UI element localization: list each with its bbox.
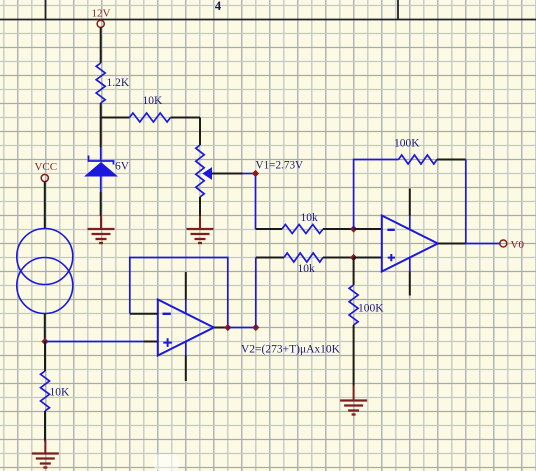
wire U2 feedback left vertical [354,160,399,230]
svg-text:VCC: VCC [34,161,57,173]
svg-text:100K: 100K [358,303,384,315]
resistor R6 100K feedback [394,138,437,165]
resistor R5 10k (to U2 + input) [256,253,354,275]
current source B1 (two circles) [17,229,73,314]
resistor R7 100K to ground [349,258,384,326]
resistor R2 10K horizontal [101,95,200,122]
wire 12V terminal to resistor R1 [100,28,102,64]
node R5 / U2 + input / R7 [350,254,357,261]
wire node V1 down to R4 row [255,177,257,230]
wire U1 feedback loop [130,258,228,328]
svg-text:100K: 100K [394,138,420,150]
wire node to op-amp U1 + input [45,341,144,343]
op-amp U2 [382,216,438,272]
svg-text:12V: 12V [92,8,111,20]
wire U1 output to node V2 [228,327,256,329]
svg-text:10K: 10K [143,95,164,107]
wire R5 node to U2 + input [354,257,382,259]
U1 power pin bottom [185,342,187,356]
ground (potentiometer) [199,216,201,229]
ground (R3) [44,440,46,454]
wire R4 node to U2 - input [354,228,382,230]
svg-text:10k: 10k [301,212,319,224]
power terminal V0 [500,239,525,251]
wire U2 output pin [438,243,466,245]
node R4 / U2 - input / feedback [350,225,357,232]
ground (R7) [353,386,355,401]
svg-text:V2=(273+T)μAx10K: V2=(273+T)μAx10K [241,344,341,356]
U2 power pin bottom [409,258,411,272]
power terminal VCC [34,161,57,182]
wire potentiometer bottom to ground [199,197,201,216]
wire feedback to right vertical [437,159,466,161]
svg-text:10K: 10K [50,387,71,399]
wire U1 output pin [214,327,228,329]
wire R7 to ground [353,325,355,386]
wire U2 output to V0 terminal [466,243,500,245]
wire node V2 up to R5 row [255,258,257,328]
node current source / R3 / U1 input [41,338,48,345]
wire feedback right vertical to output [465,160,467,244]
svg-text:V1=2.73V: V1=2.73V [256,160,304,172]
resistor R3 10K vertical [41,342,71,412]
wire current source to summing node [44,314,46,342]
svg-text:4: 4 [215,0,222,13]
op-amp U1 [158,300,214,356]
wire R3 to ground [44,411,46,442]
node V2 [252,324,259,331]
zener diode D1 6V [84,147,130,192]
node V1 junction [252,170,259,177]
wire blue segment into node V1 [243,173,256,175]
svg-text:10k: 10k [298,263,316,275]
wire zener anode to ground [100,192,102,216]
wire wiper to node V1 [212,173,243,175]
wire R1 to zener cathode node [100,103,102,147]
svg-text:6V: 6V [115,161,130,173]
ground (zener) [100,216,102,229]
wire U1 - input pin [130,313,158,315]
resistor R1 1.2K [96,63,130,103]
watermark blob [154,454,180,471]
power terminal 12V [92,8,111,28]
U2 power pin top [409,189,411,216]
svg-text:1.2K: 1.2K [107,77,130,89]
node U1 output [224,324,231,331]
wire R2 to potentiometer top [199,118,201,146]
U1 power pin top [185,272,187,300]
wire VCC to current source [44,182,46,229]
svg-text:V0: V0 [511,239,525,251]
potentiometer wiper arrow [203,168,211,179]
potentiometer RW body [196,145,204,197]
resistor R4 10k (to U2 - input) [256,212,354,234]
